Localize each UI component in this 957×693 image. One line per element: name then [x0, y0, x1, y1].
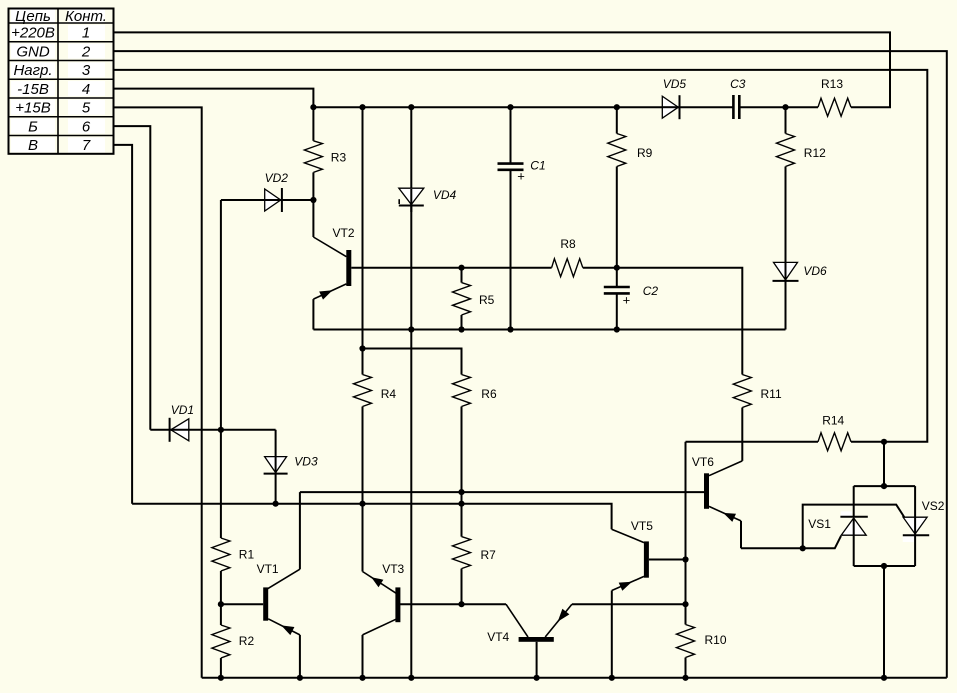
label R1 [239, 548, 255, 562]
wire node line y348 to R6 [363, 349, 462, 375]
svg-text:VD6: VD6 [803, 264, 827, 278]
label R3 [331, 151, 347, 165]
wire mid bus (VT2 emitter rail) [313, 329, 785, 331]
svg-text:R1: R1 [239, 548, 255, 562]
thyristor VS1 (cathode bar top, triangle up, gate lower-left) [840, 517, 867, 536]
svg-text:VT3: VT3 [382, 562, 404, 576]
label VD1 [171, 403, 194, 417]
wire node line y503 (V net): VD3/VT3/R7 to VT5 collector corner [132, 504, 611, 530]
transistor VT1 bar [263, 587, 268, 620]
transistor VT5 emitter arrow [619, 582, 632, 591]
svg-text:Конт.: Конт. [65, 8, 107, 25]
resistor R4 [354, 375, 372, 407]
resistor R13 [818, 98, 851, 116]
label VD6 [803, 264, 827, 278]
wire x=221 column VD2-VD1-R1 [220, 200, 222, 538]
capacitor C1 (polarized) [498, 164, 525, 184]
svg-text:R4: R4 [381, 387, 397, 401]
transistor VT3 bar [395, 587, 400, 622]
resistor R1 [212, 538, 230, 571]
transistor VT1 base wire [221, 603, 263, 605]
thyristor VS2 (triangle down, cathode bar bottom, gate upper-left) [903, 517, 929, 535]
label C1 [530, 159, 545, 173]
wire thyristor top drop [883, 442, 885, 486]
wire Nagr net: pin3 right, down to R14 right node [114, 70, 927, 442]
transistor VT2 collector diagonal [313, 237, 346, 257]
svg-text:VS2: VS2 [922, 499, 945, 513]
svg-text:1: 1 [82, 25, 90, 42]
wire thyristor bottom rail [854, 565, 915, 567]
resistor R3 [304, 141, 322, 173]
svg-text:5: 5 [82, 100, 91, 117]
transistor VT5 bar [644, 541, 649, 577]
svg-text:R13: R13 [821, 77, 843, 91]
transistor VT6 collector diagonal [709, 461, 742, 476]
transistor VT3 collector diagonal (bottom) [363, 619, 396, 635]
wire VT1 collector riser [299, 492, 301, 569]
label R5 [479, 293, 495, 307]
transistor VT2 emitter arrow [319, 290, 332, 299]
wire VT6 emitter down [740, 521, 742, 548]
wire R9 bottom to R8 node [616, 167, 618, 268]
svg-text:R6: R6 [481, 387, 497, 401]
wire R4 column from top bus [362, 107, 364, 374]
svg-text:VS1: VS1 [808, 517, 831, 531]
wire VT3 base line [400, 603, 506, 605]
wire VD1 anode line [150, 429, 275, 431]
svg-text:VD3: VD3 [294, 455, 318, 469]
wire V(7) net: pin7 right, down to node line y=503 [114, 145, 132, 504]
svg-text:6: 6 [82, 118, 91, 135]
white patch VS1 [841, 511, 852, 516]
resistor R6 [453, 375, 471, 407]
transistor VT2 collector path [312, 200, 314, 237]
wire R10 bottom to bus [685, 658, 687, 678]
capacitor C2 (polarized) [604, 287, 630, 308]
wire gate line VT6 emitter to VS1 gate [741, 536, 841, 548]
svg-text:Цепь: Цепь [15, 8, 51, 25]
wire bottom bus (GND/+15V rail) [202, 677, 947, 679]
wire VD3 branch down from VD1 line [275, 430, 277, 504]
transistor VT6 emitter arrow [723, 513, 736, 522]
svg-text:R8: R8 [560, 237, 576, 251]
wire VD4 column top bus to bottom bus [410, 107, 412, 678]
wire thyristor bottom drop to bus [883, 566, 885, 678]
diode VD2 [265, 188, 282, 212]
label VD2 [265, 171, 289, 185]
svg-text:7: 7 [82, 137, 91, 154]
diode VD6 [773, 262, 799, 281]
wire VT2 base line to R8 [351, 267, 551, 269]
wire VT2 emitter to mid bus [312, 299, 314, 329]
label R4 [381, 387, 397, 401]
transistor VT3 emitter diagonal (top) [363, 572, 397, 594]
wire R8 to R11 corner, down to VT6 collector [583, 268, 743, 375]
svg-text:+: + [623, 293, 631, 308]
wire R9 top [616, 107, 618, 133]
wire through VD2 [265, 199, 281, 201]
resistor R11 [733, 375, 751, 408]
wire VS1 column [853, 486, 855, 517]
label R9 [637, 146, 653, 160]
wire +220V net: pin1 right, down at x=890 to R13 [114, 32, 890, 107]
resistor R2 [212, 625, 230, 658]
svg-text:3: 3 [82, 62, 91, 79]
wire R12 bottom through VD6 to mid bus [785, 167, 787, 330]
resistor R10 [677, 625, 695, 658]
label C3 [730, 77, 746, 91]
svg-text:C3: C3 [730, 77, 746, 91]
wire R14 line from x=685 column [686, 441, 819, 443]
diode VD5 [662, 95, 679, 119]
label VT6 [692, 455, 714, 469]
wire VD2 anode line from x=221 column [221, 199, 314, 201]
wire R7 bottom to VT3 base line [461, 569, 463, 605]
svg-text:R11: R11 [761, 387, 782, 401]
wire -15V net: pin4 right, down to top bus [114, 89, 313, 108]
svg-text:R14: R14 [822, 414, 844, 428]
label VS1 [808, 517, 831, 531]
white patch VS2 [903, 536, 914, 542]
wire R4 bottom / VT3 emitter column [362, 407, 364, 572]
transistor VT1 emitter diagonal [268, 619, 300, 635]
transistor VT4 collector diagonal [506, 604, 528, 637]
svg-text:C2: C2 [643, 284, 659, 298]
transistor VT6 bar [704, 473, 709, 509]
svg-text:R9: R9 [637, 146, 653, 160]
wire VT4 emitter line to x=685 column [572, 603, 686, 605]
svg-text:+220В: +220В [11, 25, 55, 42]
svg-text:R12: R12 [804, 146, 826, 160]
wire C1 top [510, 107, 512, 163]
svg-text:-15В: -15В [17, 81, 49, 98]
svg-text:2: 2 [81, 43, 91, 60]
resistor R9 [608, 134, 626, 167]
svg-text:В: В [28, 137, 38, 154]
wire through VD1 [171, 429, 189, 431]
svg-text:R5: R5 [479, 293, 495, 307]
wire top bus -15V rail [313, 106, 733, 108]
label R13 [821, 77, 843, 91]
label R11 [761, 387, 782, 401]
wire R3 bottom to VD2 node [312, 172, 314, 200]
label VT1 [257, 562, 279, 576]
label VD5 [663, 77, 687, 91]
svg-text:VT6: VT6 [692, 455, 714, 469]
label R7 [481, 548, 497, 562]
wire C2 bottom [616, 293, 618, 329]
connector table X1 (Цепь/Конт., pins 1-7) [9, 8, 114, 154]
transistor VT4 emitter arrow [558, 609, 570, 622]
resistor R7 [453, 537, 471, 569]
transistor VT1 emitter arrow [281, 625, 294, 635]
label VS2 [922, 499, 945, 513]
label VT3 [382, 562, 404, 576]
svg-text:VT2: VT2 [333, 226, 355, 240]
wire x=221 column R1-R2 [220, 571, 222, 625]
svg-text:R3: R3 [331, 151, 347, 165]
wire VT1 emitter to bus [299, 635, 301, 678]
zener diode VD4 [399, 188, 424, 205]
wire VT5 emitter down to bus [611, 591, 613, 678]
transistor VT4 emitter diagonal [545, 604, 572, 637]
label C2 [643, 284, 659, 298]
label R10 [705, 633, 727, 647]
wire gate branch to VS2 gate [803, 505, 905, 549]
wire R12 top [785, 107, 787, 133]
wire through VD6 [785, 263, 787, 286]
label VT2 [333, 226, 355, 240]
wire VS2 lower column [914, 535, 916, 566]
transistor VT4 base wire [536, 642, 538, 678]
label R6 [481, 387, 497, 401]
svg-text:VT5: VT5 [631, 519, 653, 533]
wire GND net: pin2 right, down right edge to bottom bus [114, 51, 947, 678]
wire C2 top [616, 268, 618, 287]
wire through VS1 [853, 518, 855, 535]
label VD3 [294, 455, 318, 469]
label VT5 [631, 519, 653, 533]
resistor R12 [777, 134, 795, 167]
wire through VD3 [275, 457, 277, 473]
wire VS2 column [914, 486, 916, 517]
wire through VD4 [410, 189, 412, 212]
label VT4 [487, 630, 509, 644]
transistor VT5 emitter diagonal [612, 576, 644, 590]
wire through VD5 [662, 106, 678, 108]
label R14 [822, 414, 844, 428]
svg-text:GND: GND [16, 43, 50, 60]
transistor VT4 bar [519, 637, 554, 642]
resistor R14 [818, 433, 851, 451]
wire thyristor top rail [854, 485, 915, 487]
svg-text:VD2: VD2 [265, 171, 289, 185]
svg-text:VD4: VD4 [433, 188, 457, 202]
wire VT5 base line [649, 559, 686, 561]
transistor VT2 emitter diagonal [313, 284, 346, 299]
wire B(6) net: pin6 right, down to VD1 [114, 126, 150, 430]
wire C1 bottom [510, 169, 512, 329]
wire R11 bottom to VT6 collector [741, 408, 743, 461]
wire VS1 lower column [853, 535, 855, 566]
transistor VT1 collector diagonal [268, 569, 300, 589]
wire top bus C3 to R13 [739, 106, 818, 108]
wire R3 top [312, 107, 314, 141]
svg-text:VT1: VT1 [257, 562, 279, 576]
label R8 [560, 237, 576, 251]
wire through VS2 [914, 517, 916, 534]
label VD4 [433, 188, 457, 202]
transistor VT2 bar [346, 250, 351, 286]
svg-text:+15В: +15В [15, 100, 50, 117]
svg-text:C1: C1 [530, 159, 545, 173]
label R2 [239, 634, 255, 648]
diode VD3 [264, 457, 288, 474]
svg-text:VD5: VD5 [663, 77, 687, 91]
diode VD1 [170, 418, 189, 442]
wire R14 right to thyristor drop [851, 441, 884, 443]
transistor VT6 emitter diagonal [709, 506, 741, 521]
svg-text:R10: R10 [705, 633, 727, 647]
capacitor C3 [733, 95, 739, 119]
wire node line y492: VT1 collector to VT6 base [300, 491, 704, 493]
svg-text:R7: R7 [481, 548, 497, 562]
svg-text:VD1: VD1 [171, 403, 194, 417]
wire x=221 column R2-bus [220, 658, 222, 678]
svg-text:VT4: VT4 [487, 630, 509, 644]
wire +15V net: pin5 right, down left side to bottom bus [114, 107, 202, 677]
svg-text:4: 4 [82, 81, 90, 98]
label R12 [804, 146, 826, 160]
svg-text:+: + [517, 169, 525, 184]
svg-text:Б: Б [28, 118, 38, 135]
transistor VT5 collector diagonal [612, 529, 644, 542]
resistor R8 [552, 259, 583, 277]
transistor VT3 emitter arrow [371, 577, 383, 587]
svg-text:R2: R2 [239, 634, 255, 648]
svg-text:Нагр.: Нагр. [13, 62, 52, 79]
wire R6 bottom to R7 top [461, 407, 463, 537]
wire VT3 collector to bus [362, 635, 364, 678]
wire x=685 column: R14 corner down to VT5 base and R10 [685, 442, 687, 625]
resistor R5 [453, 268, 471, 330]
